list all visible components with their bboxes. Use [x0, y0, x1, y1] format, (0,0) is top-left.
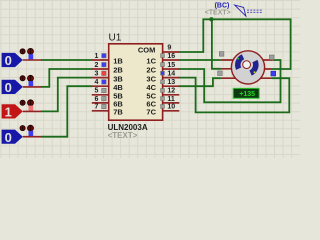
U1 right pin numbers 9,16-10 — [167, 44, 175, 110]
U1 right pin names COM,1C-7C — [138, 45, 157, 116]
svg-text:2: 2 — [94, 62, 98, 69]
U1 pin 6 (6B) stub — [92, 102, 109, 104]
svg-text:9: 9 — [167, 44, 171, 51]
svg-text:11: 11 — [167, 96, 175, 103]
wire COM: U1 pin 9 up to top rail, across, down right side to motor right-mid pin — [179, 19, 291, 69]
svg-text:0: 0 — [5, 130, 12, 145]
U1 pin 16 (1C) stub — [163, 59, 180, 61]
U1 left pin numbers 1-7 — [94, 53, 98, 111]
svg-text:7B: 7B — [113, 108, 123, 117]
U1 pin 12 (5C) stub — [163, 94, 180, 96]
U1 pin 14 (3C) stub — [163, 77, 180, 79]
wire W3: logic state LS3 up-jog to U1 pin 3 (3B) — [41, 78, 92, 112]
wire 3C: U1 pin 14 down, under motor, up right side to motor right-bottom pin — [179, 78, 290, 113]
wire W4: logic state LS4 up-jog to U1 pin 4 (4B) — [41, 86, 92, 137]
pin state indicator squares U1 right pins 16-10 — [161, 54, 165, 109]
svg-text:+135: +135 — [239, 91, 255, 98]
svg-text:1C: 1C — [146, 57, 156, 66]
logic state LS1 value 0 — [2, 48, 42, 68]
svg-text:15: 15 — [167, 62, 175, 69]
U1 pin 15 (2C) stub — [163, 68, 180, 70]
motor pin indicator square left-top — [219, 52, 224, 57]
IC U1 body (ULN2003A) — [109, 44, 163, 120]
U1 value label ULN2003A — [108, 123, 148, 132]
U1 pin 7 (7B) stub — [92, 110, 109, 112]
wire 2C: U1 pin 15 down, under motor, up right side to motor right-top pin — [179, 60, 281, 102]
svg-text:7C: 7C — [146, 108, 156, 117]
motor pin indicator square right-bottom — [271, 71, 276, 76]
U1 TEXT placeholder label — [108, 131, 138, 140]
U1 pin 10 (7C) stub — [163, 110, 180, 112]
svg-text:14: 14 — [167, 71, 175, 78]
svg-text:<TEXT>: <TEXT> — [205, 9, 231, 16]
svg-text:13: 13 — [167, 79, 175, 86]
pin state indicator squares U1 left pins — [102, 54, 106, 109]
svg-text:4: 4 — [94, 79, 98, 86]
svg-text:COM: COM — [138, 45, 156, 54]
U1 pin 3 (3B) stub — [92, 77, 109, 79]
U1 pin 5 (5B) stub — [92, 94, 109, 96]
svg-text:3: 3 — [94, 71, 98, 78]
motor M1 rotor position dot green — [237, 58, 239, 60]
logic state LS4 value 0 — [2, 125, 42, 145]
wire COM branch: from junction on top rail down to motor left-mid pin — [212, 19, 221, 69]
motor M1 rotor arc upper-left — [235, 54, 244, 70]
motor rotated-label triangle glyph — [235, 5, 246, 16]
svg-text:16: 16 — [167, 53, 175, 60]
wire W2: logic state LS2 up-jog to U1 pin 2 (2B) — [41, 69, 93, 87]
wire W1: logic state LS1 to U1 pin 1 (1B) — [41, 59, 93, 61]
logic state LS2 value 0 — [2, 75, 42, 95]
svg-text:0: 0 — [5, 80, 12, 95]
motor M1 rotor arc lower-right — [249, 60, 258, 76]
U1 left pin names 1B-7B — [113, 57, 123, 117]
svg-text:1: 1 — [94, 53, 98, 60]
svg-text:<TEXT>: <TEXT> — [108, 131, 138, 140]
svg-text:7: 7 — [94, 104, 98, 111]
svg-text:10: 10 — [167, 104, 175, 111]
U1 pin 11 (6C) stub — [163, 102, 180, 104]
svg-text:1: 1 — [5, 105, 12, 120]
junction dot on COM rail — [209, 17, 213, 21]
svg-text:12: 12 — [167, 88, 175, 95]
svg-text:1B: 1B — [113, 57, 123, 66]
svg-text:5: 5 — [94, 88, 98, 95]
U1 pin 4 (4B) stub — [92, 85, 109, 87]
motor rotated-label dash marks — [247, 10, 263, 12]
motor M1 rotor position dot yellow — [254, 71, 256, 73]
wire 1C: U1 pin 16 straight to motor left-top pin — [179, 59, 221, 61]
motor M1 shaft hole — [243, 61, 251, 69]
svg-text:0: 0 — [5, 53, 12, 68]
U1 pin 9 (COM) stub — [163, 51, 180, 53]
background grid — [0, 0, 300, 158]
motor angle display +135 — [233, 88, 259, 98]
motor M1 pin stubs (6 pins) — [221, 60, 273, 78]
motor reference label (BC) — [215, 2, 230, 9]
svg-text:6: 6 — [94, 96, 98, 103]
motor pin indicator square left-bottom — [218, 71, 223, 76]
logic state LS3 value 1 — [2, 100, 42, 120]
motor M1 stepper body — [231, 51, 264, 84]
motor TEXT placeholder label — [205, 9, 231, 16]
wire 4C: U1 pin 13 with up-jog to motor left-bottom pin — [179, 78, 221, 86]
U1 reference label — [109, 32, 122, 43]
motor pin indicator square right-top — [269, 55, 274, 60]
U1 pin 13 (4C) stub — [163, 85, 180, 87]
U1 pin 1 (1B) stub — [92, 59, 109, 61]
U1 pin 2 (2B) stub — [92, 68, 109, 70]
svg-text:U1: U1 — [109, 32, 122, 43]
